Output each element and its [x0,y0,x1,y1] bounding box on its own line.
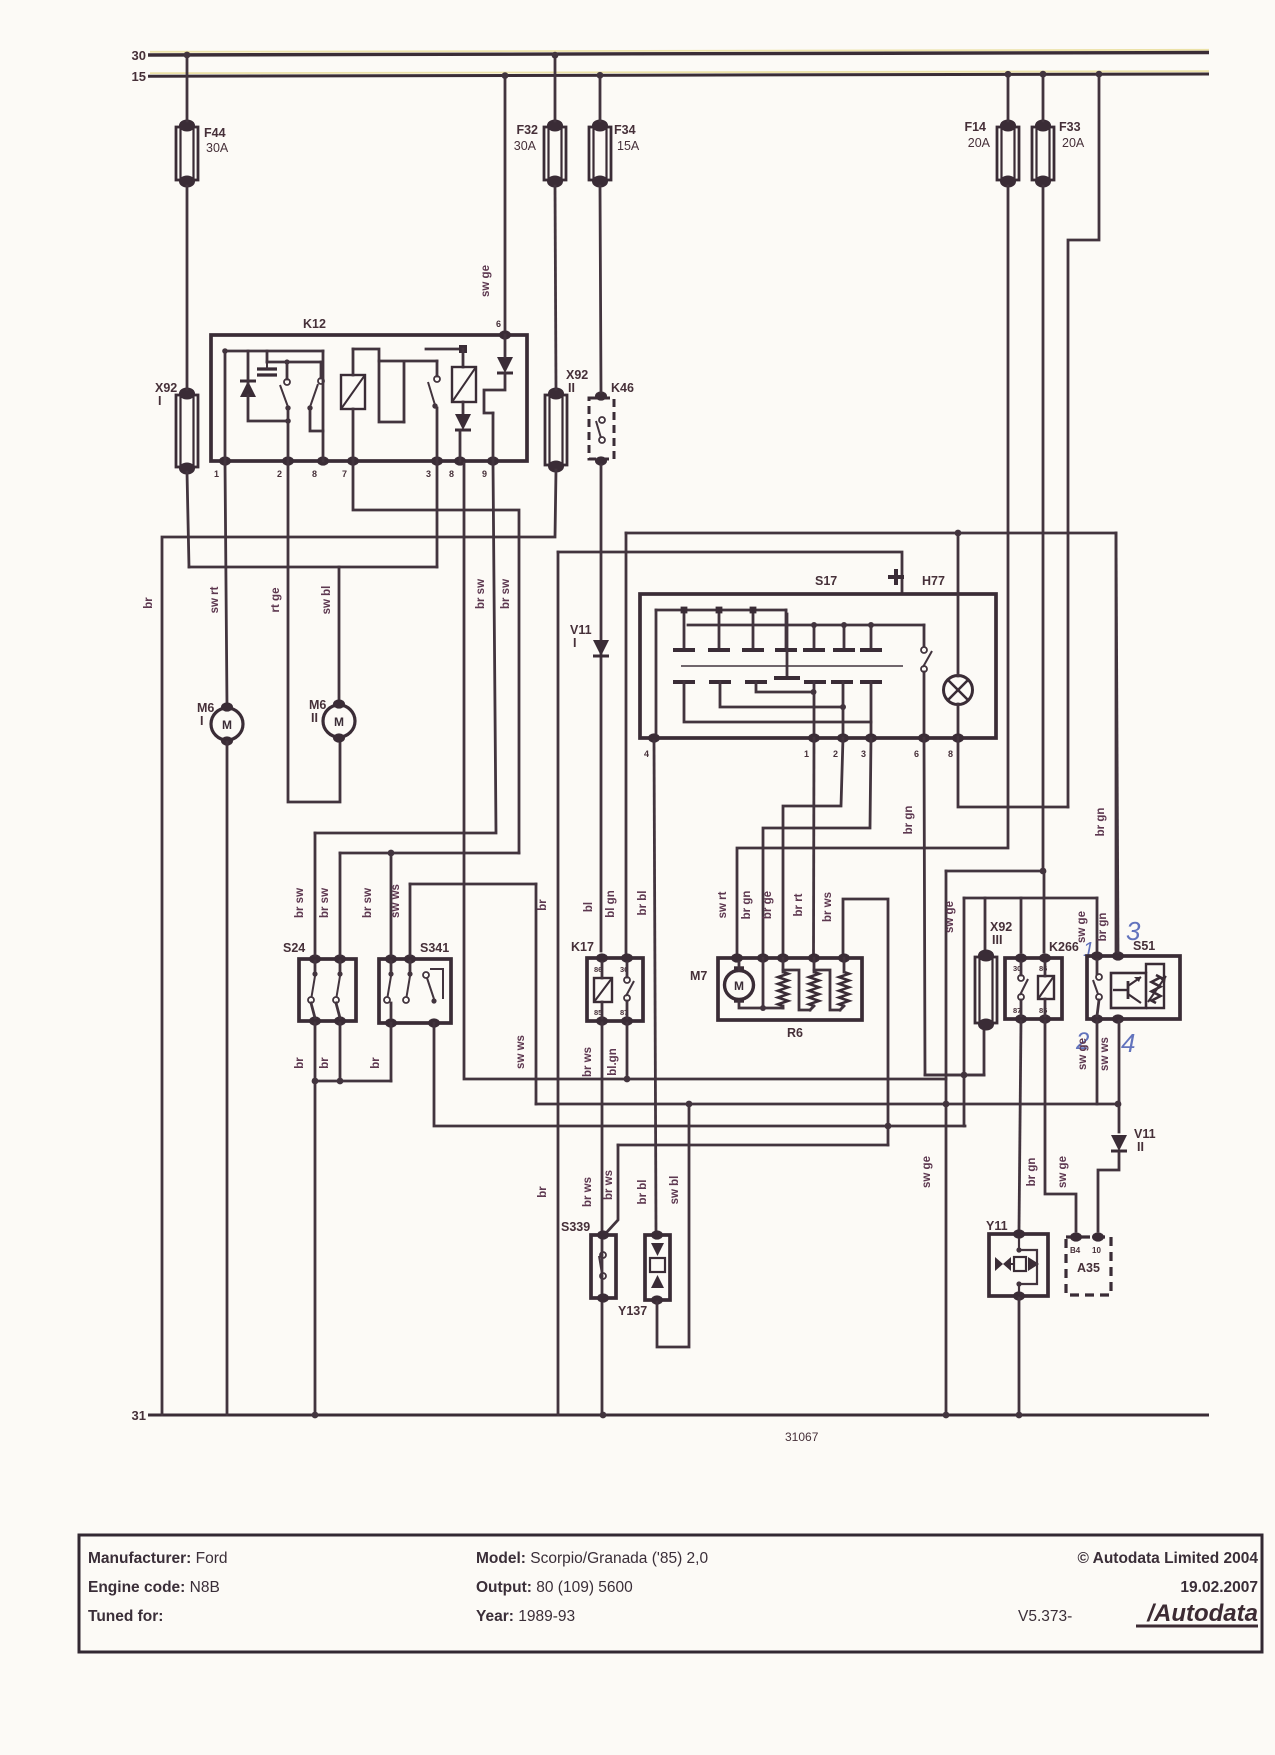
junction sw ws line right [1115,1101,1122,1108]
junction F33 line [1040,868,1047,875]
pin 3 of K12 at x437 [431,456,443,465]
svg-text:3: 3 [861,749,866,759]
wire sw ge S51 bottom left down [1096,1021,1099,1104]
wire R6 link 1 [783,970,810,1010]
switch contact 1 in S24 [308,971,318,1003]
switch S339 box [591,1235,616,1298]
svg-text:F14: F14 [964,120,986,134]
wire S17 contact stem x753 [752,610,755,648]
junction F32 on bus 30 [552,52,559,59]
wire horizontal X92I to K12 pin3 [189,566,437,569]
svg-text:20A: 20A [968,136,991,150]
wire br ws K17 to S339 and bus31 [601,1023,604,1415]
svg-text:30A: 30A [206,141,229,155]
switch S24 box [299,959,356,1021]
wire sw ws long horizontal [536,1103,1119,1106]
svg-text:8: 8 [449,469,454,479]
wire sw ge distribution left drop [963,898,966,1126]
svg-text:Tuned for:: Tuned for: [88,1608,163,1625]
switch contact 2 in S341 [403,971,413,1003]
relay coil 2 in K12 [452,367,476,402]
wire ground link S24 S341 [315,1080,391,1083]
wire long feed line y533 [626,532,1116,535]
svg-text:sw ge: sw ge [944,901,956,933]
wire horizontal S24 S341 top feed [340,852,519,855]
pin M6 II top [333,699,345,708]
pin M6 II bottom [333,733,345,742]
svg-text:br gn: br gn [1095,808,1107,837]
svg-text:M: M [222,718,232,732]
wire K12 pin1 riser [224,351,227,461]
wire K12 inner rail upper-left [225,350,323,353]
junction S17 route B pin2 [840,704,846,710]
switch contact 2 in K12 [307,378,324,411]
svg-text:9: 9 [482,469,487,479]
pin 1 of K12 at x225 [219,456,231,465]
wire M7 motor bottom link [739,1001,783,1008]
svg-text:8: 8 [312,469,317,479]
svg-text:br: br [319,1057,331,1069]
wire bus15 down right jog to S17 pin8 line [1068,76,1099,807]
wire R6 r2 top stem [813,958,816,972]
pin 2 of K12 at x288 [282,456,294,465]
wire S17 route A [756,682,813,692]
pin S341 bottom left [385,1018,397,1027]
switch contact in S17 [921,647,932,672]
fuse F14 [997,120,1019,188]
svg-text:sw bl: sw bl [321,586,333,615]
svg-text:br ws: br ws [582,1047,594,1077]
switch contact 3 in K12 [428,376,440,409]
junction F34 on bus 15 [597,72,604,79]
wire br ge S17 pin2 to M7 [783,738,843,954]
svg-text:S17: S17 [815,574,837,588]
contact foot S17 x719 [708,648,730,652]
svg-text:M6: M6 [309,698,326,712]
connector X92 II [545,388,567,473]
svg-text:br gn: br gn [741,891,753,920]
svg-text:R6: R6 [787,1026,803,1040]
svg-text:M6: M6 [197,701,214,715]
wire sw ws horizontal [410,883,536,886]
diode V11 II [1111,1135,1127,1151]
fuse F32 [544,120,566,188]
wire K12 pin3 riser [436,463,439,567]
wire R6 r3 bottom join [840,1006,844,1010]
svg-text:Year: 1989-93: Year: 1989-93 [476,1608,575,1625]
svg-text:/Autodata: /Autodata [1146,1600,1258,1627]
junction Y11 bus 31 [1016,1412,1023,1419]
wire K266 coil bottom stem [1044,999,1047,1016]
pin K17 top right [621,953,633,962]
pin K17 bottom right [621,1016,633,1025]
svg-text:15A: 15A [617,139,640,153]
pin M7 x737 [731,953,743,962]
svg-text:K17: K17 [571,940,594,954]
svg-text:br gn: br gn [1026,1158,1038,1187]
svg-text:X92: X92 [566,368,588,382]
wire S17 switch feed [923,625,926,646]
svg-text:X92: X92 [155,381,177,395]
wire S17 contact stem x786 [785,610,788,648]
wire bus15 to F34 [599,77,602,121]
diode V11 I [593,640,609,656]
pin S339 top [597,1230,609,1239]
wire S17 route B [720,682,843,707]
svg-text:br ws: br ws [582,1177,594,1207]
wire ground br to S17 switch feed [558,552,902,594]
wire K12 sw2 top stem [320,362,323,378]
svg-text:V5.373-: V5.373- [1018,1608,1072,1625]
wire br gn S17 pin3 to M7 [763,738,871,954]
plus symbol at S17 [888,569,904,585]
svg-text:S24: S24 [283,941,305,955]
wire S17 centre pivot stem [786,614,789,676]
relay K17 box [587,958,643,1021]
relay box K12 [211,335,527,461]
junction H77 feed [955,530,962,537]
pin 7 of K12 at x353 [347,456,359,465]
svg-text:F34: F34 [614,123,636,137]
svg-text:sw bl: sw bl [669,1176,681,1205]
svg-text:X92: X92 [990,920,1012,934]
relay coil in K266 [1038,976,1054,999]
svg-text:I: I [573,636,576,650]
wire X92 I down [187,472,189,567]
wire S24 contact1 top stub [314,961,317,971]
junction square K12 coil2 [459,345,467,353]
svg-text:Y137: Y137 [618,1304,647,1318]
S17 centre pivot foot [774,676,800,680]
svg-text:sw ws: sw ws [1099,1037,1111,1071]
wire S17 contact stem x814 [813,625,816,648]
wire S17 left inner riser to pin 4 [655,610,658,738]
pin S339 bottom [597,1293,609,1302]
wire br S24 right down [339,1023,342,1081]
junction sw ge on bus 15 [502,72,509,79]
wire K12 diode3 jog [484,373,505,413]
wire K12 inner jog mid [379,361,404,422]
wire K266 switch bottom stem [1020,1000,1023,1016]
connector X92 III [975,950,997,1031]
pin M6 I top [221,702,233,711]
wire F44 to X92 I [186,186,189,389]
junction S24 right ground [337,1078,344,1085]
wire K12 pin7 to S24 top line [353,463,519,853]
wire S341 bottom left ground [390,1023,393,1081]
wire Y11 to bus 31 [1018,1298,1021,1415]
wire S17 pin2 riser [842,682,845,738]
svg-text:A35: A35 [1077,1261,1100,1275]
wire K266 switch top stem [1020,962,1023,975]
svg-text:4: 4 [1121,1028,1135,1058]
bracket loop in S51 [1146,964,1164,1008]
contact foot S17 x684 [673,648,695,652]
svg-text:S339: S339 [561,1220,590,1234]
svg-text:Engine code: N8B: Engine code: N8B [88,1579,220,1596]
wire H77 feed from line [957,533,960,594]
svg-text:sw ge: sw ge [921,1156,933,1188]
bus 15 scan fringe [150,71,1209,73]
wire K12 sw3 to pin 3 [436,408,439,461]
Autodata logo [1136,1600,1258,1627]
pin K266 bottom right [1039,1014,1051,1023]
junction F14 on bus 15 [1005,71,1012,78]
wire sw rt K12 pin1 to M6 I [225,463,227,706]
pin 8 of K12 at x460 [454,456,466,465]
pin 6 of K12 [499,330,511,339]
svg-text:br gn: br gn [1097,913,1109,942]
svg-text:F44: F44 [204,126,226,140]
wire R6 r2 bottom join [810,1006,814,1010]
pin K266 top left [1015,953,1027,962]
wire S341 contact2 top stub [409,961,412,971]
pin M7 x814 [808,953,820,962]
wire K266 coil top stem [1044,962,1047,976]
svg-text:M7: M7 [690,969,707,983]
svg-text:S341: S341 [420,941,449,955]
svg-text:1: 1 [804,749,809,759]
junction K12 diode pin2 [285,418,291,424]
connector X92 I [176,388,198,475]
motor M6 II [323,705,355,737]
svg-text:10: 10 [1092,1246,1101,1255]
svg-text:sw ws: sw ws [515,1035,527,1069]
svg-text:I: I [158,394,161,408]
junction S24 bus 31 [312,1412,319,1419]
wire S17 contact stem x844 [843,625,846,648]
svg-text:30A: 30A [514,139,537,153]
svg-text:I: I [200,714,203,728]
transistor box in S51 [1111,973,1146,1008]
wire K17 switch top stem [626,962,629,977]
switch contact in K46 [596,417,605,443]
lower contact bar S17 x684 [673,680,695,684]
pin S24 top right [334,954,346,963]
svg-text:bl.gn: bl.gn [607,1048,619,1075]
junction sw ge sw ws [943,1101,950,1108]
wire sw bl to M6 II [338,567,341,702]
svg-text:31067: 31067 [785,1430,819,1444]
contact blob S17 rail x719 [716,607,723,614]
wire R6 r1 bottom stem [782,1006,785,1008]
pin S24 top left [309,954,321,963]
wire S17 inner rail 2 [688,624,924,627]
contact blob S17 rail x684 [681,607,688,614]
switch contact in K266 [1018,975,1028,1000]
pin S51 top left [1091,951,1103,960]
switch contact 1 in K12 [280,379,291,411]
control unit A35 dashed box [1066,1237,1111,1295]
junction K12 sw1 rail [284,359,289,364]
svg-text:II: II [1137,1140,1144,1154]
svg-text:V11: V11 [1134,1127,1156,1141]
contact foot S17 x844 [833,648,855,652]
switch contact 2 in S24 [333,971,343,1003]
sensor unit S51 box [1087,956,1180,1019]
svg-text:K46: K46 [611,381,634,395]
blower motor unit M7 R6 box [718,958,862,1020]
svg-text:br gn: br gn [903,806,915,835]
pin 3 of S17 [865,733,877,742]
wire br ws diagonal into S339 [606,1145,618,1233]
svg-text:br ws: br ws [822,892,834,922]
wire S51 contact top stub [1096,960,1099,974]
pin S51 bottom right [1112,1014,1124,1023]
svg-text:sw rt: sw rt [209,586,221,613]
svg-text:20A: 20A [1062,136,1085,150]
wire F33 down [1042,186,1045,871]
junction S341 line M7 loop [885,1123,892,1130]
svg-text:sw ge: sw ge [480,265,492,297]
junction S339 bus 31 [600,1412,607,1419]
svg-text:V11: V11 [570,623,592,637]
junction S17 route A pin1 [811,689,817,695]
pin K266 top right [1039,953,1051,962]
wire br rt S17 pin1 to M7 [812,738,815,954]
pin K17 bottom left [596,1016,608,1025]
svg-text:2: 2 [277,469,282,479]
wire br bl S17 pin4 to Y137 [654,741,656,1231]
resistor R6 element 2 [809,972,819,1006]
pin K46 top [595,391,607,400]
wire sw ge distribution horizontal [964,897,1097,900]
wire S17 contact stem x871 [870,625,873,648]
wire K12 pin8 long down to right [464,463,946,1079]
svg-text:Output: 80 (109) 5600: Output: 80 (109) 5600 [476,1579,633,1596]
wire sw ge long vertical [945,871,948,1415]
wire bl K46 to K17 [600,465,603,951]
wire br X92 II to bus 31 [162,470,556,1415]
svg-text:br bl: br bl [637,891,649,916]
svg-text:M: M [734,979,744,993]
relay coil in K17 [594,978,612,1002]
wire br gn K266 to A35 pin B4 [1045,1021,1076,1231]
wire K12 to pin 9 [492,413,495,461]
svg-text:br sw: br sw [475,579,487,609]
bus 30 scan fringe [150,50,1209,52]
valve unit Y11 box [989,1234,1048,1296]
svg-text:br sw: br sw [362,888,374,918]
pin M7 x783 [777,953,789,962]
pin M7 x844 [838,953,850,962]
wire K12 coil1 top stem [352,349,355,375]
svg-text:br sw: br sw [500,579,512,609]
wire S341 contact1 bottom stub [390,1003,393,1018]
bus 31 [148,1414,1209,1417]
bus 15 [148,74,1209,76]
pin S341 top left [385,954,397,963]
pin 6 of S17 [918,733,930,742]
fuse F44 [176,120,198,188]
pin K46 bottom [595,456,607,465]
junction S17 rail2 x871 [868,622,874,628]
contact pair in S51 [1093,974,1102,1000]
svg-text:II: II [568,381,575,395]
contact blob S17 rail x753 [750,607,757,614]
contact foot S17 x786 [775,648,797,652]
svg-text:br ws: br ws [603,1170,615,1200]
wire bus15 to F14 [1007,76,1010,121]
wire K12 coil1 top to switch 3 [353,349,437,361]
svg-text:2: 2 [833,749,838,759]
svg-text:M: M [334,715,344,729]
wire R6 r1 top stem [782,958,785,972]
pin S51 top right [1112,951,1124,960]
svg-text:S51: S51 [1133,939,1155,953]
wire K12 coil2 to diode 2 [462,402,465,415]
lamp H77 [944,676,973,705]
svg-text:K266: K266 [1049,940,1079,954]
relay K46 dashed housing [589,398,614,459]
wire br ground long vertical [557,552,560,1415]
wire K12 sw3 top stem [436,361,439,376]
wire X92 III bottom down [983,1023,986,1075]
wire K12 sw2 pivot to pin8 link [310,410,323,431]
junction right drop on bus 15 [1096,71,1103,78]
wire bus30 to F32 [554,56,557,121]
pin 4 of S17 [648,733,660,742]
wire K12 pin6 to diode 3 [504,335,507,357]
svg-text:8: 8 [948,749,953,759]
lower contact bar S17 x756 [745,680,767,684]
wire K266 top left riser [1020,898,1023,952]
lower contact bar S17 x871 [860,680,882,684]
wire K266 bottom left to Y11 [1019,1021,1021,1230]
svg-text:19.02.2007: 19.02.2007 [1180,1579,1258,1596]
svg-text:1: 1 [214,469,219,479]
svg-text:B4: B4 [1070,1246,1081,1255]
wire S17 contact stem x719 [718,610,721,648]
wire br S24 to bus 31 [314,1023,317,1415]
wire sw ws S51 bottom right down [1118,1021,1121,1132]
wire bus15 to F33 [1042,76,1045,121]
svg-text:6: 6 [496,319,501,329]
wire R6 link 2 [814,970,840,1010]
junction X92 III link [961,1072,968,1079]
svg-text:bl: bl [583,902,595,912]
pin K266 bottom left [1015,1014,1027,1023]
motor M7 symbol [725,968,754,1001]
junction S17 rail2 x844 [841,622,847,628]
lower contact bar S17 x842 [831,680,853,684]
svg-text:br sw: br sw [294,888,306,918]
wire bl gn K17 down [626,1023,629,1079]
wire br sw to S341 left [390,853,393,955]
wire F32 to X92 II [555,186,556,389]
wire S24 contact2 bottom stub [336,1003,340,1018]
switch contact in K17 [624,977,634,1001]
wire S51 top left riser [1096,898,1099,952]
wire V11 II to A35 pin 10 [1098,1152,1119,1231]
pin 8 of K12 at x323 [317,456,329,465]
switch contact 1 in S341 [384,971,394,1003]
switch contact 3 in S341 [423,969,443,1004]
svg-text:III: III [992,933,1002,947]
relay K266 box [1005,958,1062,1019]
resistor R6 element 1 [778,972,788,1006]
svg-text:7: 7 [342,469,347,479]
contact foot S17 x871 [860,648,882,652]
wire S24 contact2 top stub [339,961,342,971]
diode 2 in K12 [455,414,471,430]
wire br sw to S24 right [339,853,342,955]
lower contact bar S17 x815 [804,680,826,684]
svg-text:br: br [294,1057,306,1069]
wire br gn S17 pin6 down [924,738,984,1075]
svg-text:4: 4 [644,749,649,759]
svg-text:6: 6 [914,749,919,759]
